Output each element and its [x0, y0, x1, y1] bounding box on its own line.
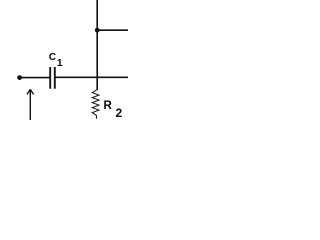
resistor R2 zigzag — [92, 90, 99, 119]
label C1 subscript 1 — [57, 58, 63, 69]
node junction dot top — [95, 28, 100, 33]
label R2 letter R — [104, 101, 112, 113]
capacitor C1 right plate — [54, 67, 56, 89]
node input dot — [17, 75, 22, 80]
wire top right — [97, 29, 128, 31]
wire input to capacitor — [20, 77, 51, 79]
arrow input signal — [27, 89, 34, 120]
label C1 letter C — [49, 53, 56, 63]
wire vertical main — [96, 0, 98, 90]
wire capacitor to right edge — [55, 76, 128, 78]
label R2 subscript 2 — [116, 107, 123, 119]
capacitor C1 left plate — [49, 67, 51, 89]
